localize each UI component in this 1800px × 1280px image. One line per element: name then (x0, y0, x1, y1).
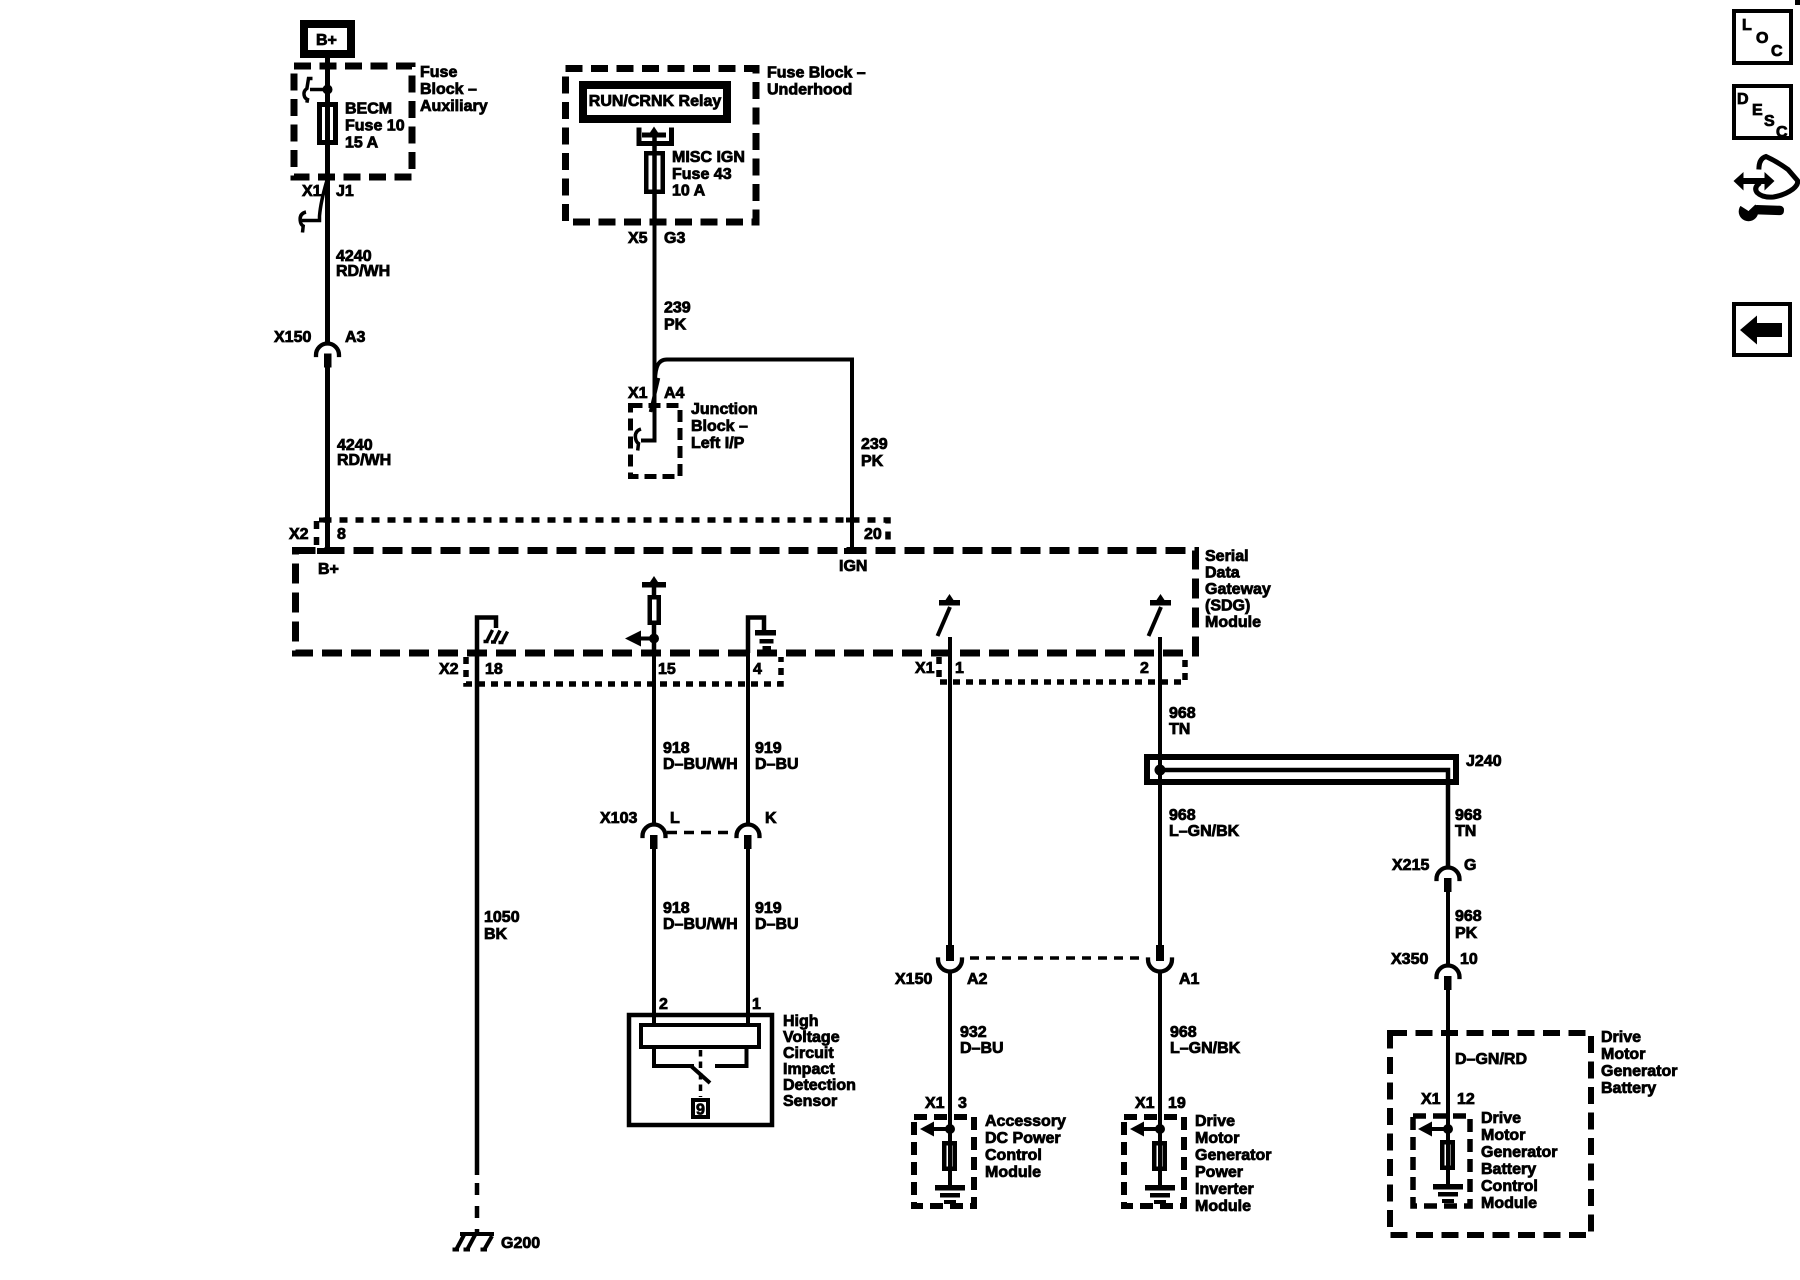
icon DESC box (1734, 86, 1791, 141)
connector X150 pin A1 male stub (1156, 945, 1164, 961)
label High Voltage Circuit Impact Detection Sensor (783, 1013, 856, 1110)
label Fuse Block - Auxiliary (420, 64, 488, 115)
resistor element pin 15 (642, 576, 666, 653)
switch pin 2 internal (1149, 594, 1172, 636)
svg-text:Module: Module (985, 1164, 1041, 1181)
pin 8 T-bar at module border (317, 548, 334, 554)
connector X103 pin K (arc) (737, 825, 760, 836)
icon schematic navigation outline arrow (1756, 157, 1798, 198)
svg-text:Fuse: Fuse (420, 64, 457, 81)
svg-text:S: S (1764, 113, 1775, 130)
svg-text:L: L (670, 810, 680, 827)
wire dashed segment to G200 (475, 1183, 480, 1233)
resistor accessory module (944, 1143, 955, 1169)
connector X103 pin L (arc) (643, 825, 666, 836)
svg-text:D–BU/WH: D–BU/WH (663, 916, 738, 933)
label X1 A4 (628, 385, 685, 402)
ground pin 18 internal chassis ground (477, 618, 508, 654)
label wire 4240 RD/WH lower (337, 437, 391, 469)
svg-text:15: 15 (658, 661, 676, 678)
svg-text:L: L (1742, 17, 1752, 34)
svg-text:Power: Power (1195, 1164, 1243, 1181)
svg-text:Motor: Motor (1601, 1046, 1645, 1063)
fuse F BECM Fuse 10 15A (320, 105, 336, 143)
svg-text:K: K (765, 810, 777, 827)
connector X1 bottom bracket (dotted) (939, 657, 1185, 682)
fuse clip terminal symbol (304, 79, 327, 103)
svg-text:Battery: Battery (1481, 1161, 1536, 1178)
svg-text:4: 4 (753, 661, 762, 678)
svg-text:Motor: Motor (1481, 1127, 1525, 1144)
svg-text:968: 968 (1455, 908, 1482, 925)
node junction dot pin 15 (649, 634, 659, 644)
svg-text:G200: G200 (501, 1235, 540, 1252)
resistor battery control module (1442, 1142, 1453, 1168)
svg-text:X1: X1 (925, 1095, 945, 1112)
icon wrench (1738, 198, 1785, 222)
wire resistor to ground battery control module (1446, 1129, 1450, 1184)
svg-text:8: 8 (337, 526, 346, 543)
svg-text:1: 1 (752, 996, 761, 1013)
wire 968 L-GN/BK X150 to inverter module (1158, 971, 1162, 1129)
label wire 239 PK (664, 300, 691, 334)
svg-text:X2: X2 (289, 526, 309, 543)
wire 239 PK branch to SDG pin 20 (655, 360, 852, 551)
icon back arrow box (1734, 304, 1790, 355)
connector X215 pin G male stub (1444, 878, 1452, 892)
svg-text:Battery: Battery (1601, 1080, 1656, 1097)
svg-text:L–GN/BK: L–GN/BK (1169, 823, 1240, 840)
fuse F MISC IGN Fuse 43 10A (646, 153, 663, 192)
svg-text:Module: Module (1481, 1195, 1537, 1212)
connector X150 pin A3 male stub (324, 354, 332, 368)
svg-text:(SDG): (SDG) (1205, 598, 1250, 615)
svg-text:A2: A2 (967, 971, 988, 988)
ground pin 4 internal earth ground (748, 618, 776, 654)
svg-text:Accessory: Accessory (985, 1113, 1066, 1130)
connector X2 top bracket (dotted) (317, 520, 889, 545)
label wire 239 PK right (861, 436, 888, 470)
label wire 4240 RD/WH upper (336, 248, 390, 280)
svg-text:968: 968 (1455, 807, 1482, 824)
svg-text:Generator: Generator (1601, 1063, 1677, 1080)
wire D-GN/RD X350 into battery box (1446, 990, 1450, 1129)
wire 919 D-BU pin 4 to X103 K (746, 653, 750, 823)
svg-text:2: 2 (1140, 660, 1149, 677)
arrow internal circuit accessory module (920, 1122, 950, 1137)
svg-text:Fuse 43: Fuse 43 (672, 166, 732, 183)
label Accessory DC Power Control Module (985, 1113, 1066, 1181)
svg-text:Fuse Block –: Fuse Block – (767, 65, 866, 82)
label X103 L K (600, 810, 777, 827)
svg-text:J1: J1 (336, 183, 354, 200)
svg-text:968: 968 (1170, 1024, 1197, 1041)
svg-text:PK: PK (1455, 925, 1478, 942)
svg-text:Control: Control (1481, 1178, 1538, 1195)
sensor switch blade (691, 1066, 710, 1083)
svg-text:Generator: Generator (1481, 1144, 1557, 1161)
wire resistor to ground accessory module (948, 1129, 952, 1185)
svg-text:BK: BK (484, 926, 508, 943)
label wire 968 PK (1455, 908, 1482, 942)
drive motor generator battery control module (dashed box) (1413, 1116, 1470, 1206)
icon LOC box (1734, 11, 1791, 63)
svg-text:19: 19 (1168, 1095, 1186, 1112)
svg-text:RUN/CRNK Relay: RUN/CRNK Relay (589, 93, 722, 110)
svg-text:A1: A1 (1179, 971, 1200, 988)
svg-text:1: 1 (955, 660, 964, 677)
connector X150 pin A2 male stub (946, 945, 954, 961)
svg-text:Sensor: Sensor (783, 1093, 837, 1110)
label Fuse Block - Underhood (767, 65, 866, 99)
svg-text:D–BU: D–BU (960, 1040, 1004, 1057)
svg-text:Circuit: Circuit (783, 1045, 834, 1062)
svg-text:Fuse 10: Fuse 10 (345, 118, 405, 135)
svg-text:D–GN/RD: D–GN/RD (1455, 1051, 1527, 1068)
drive motor generator power inverter module (dashed box) (1124, 1117, 1184, 1206)
label X150 A3 (274, 329, 366, 346)
svg-text:918: 918 (663, 740, 690, 757)
wire 239 PK fuse to junction block (653, 222, 657, 440)
resistor inverter module (1154, 1143, 1165, 1169)
connector X103 pin L male stub (650, 835, 658, 849)
svg-text:O: O (1756, 30, 1768, 47)
drive motor generator battery (dashed box) (1390, 1033, 1591, 1235)
wire B+ to fuse BECM (325, 58, 330, 145)
label wire 932 D-BU (960, 1024, 1004, 1057)
label wire 919 D-BU upper (755, 740, 799, 773)
svg-text:B+: B+ (316, 32, 337, 49)
label X1 19 (1135, 1095, 1186, 1112)
svg-text:X150: X150 (274, 329, 311, 346)
connector X150 pin A3 (arc) (316, 344, 339, 356)
svg-text:239: 239 (861, 436, 888, 453)
wire inside junction block (641, 437, 655, 441)
label wire 968 L-GN/BK upper (1169, 807, 1240, 840)
connector X150 pin A2 (arc) (938, 960, 962, 972)
sensor label 9 box (693, 1100, 708, 1119)
icon schematic navigation double arrow (1734, 172, 1775, 191)
svg-text:3: 3 (958, 1095, 967, 1112)
svg-text:Control: Control (985, 1147, 1042, 1164)
svg-text:Drive: Drive (1481, 1110, 1521, 1127)
node junction dot battery control module (1443, 1124, 1453, 1134)
svg-text:Underhood: Underhood (767, 82, 852, 99)
svg-text:Junction: Junction (691, 401, 758, 418)
label wire 918 D-BU/WH lower (663, 900, 738, 933)
svg-text:X5: X5 (628, 230, 648, 247)
connector X350 pin 10 male stub (1444, 976, 1452, 990)
label X2 18 15 4 (439, 661, 762, 678)
svg-text:2: 2 (659, 996, 668, 1013)
label wire 968 TN right (1455, 807, 1482, 840)
svg-text:Drive: Drive (1601, 1029, 1641, 1046)
svg-text:DC Power: DC Power (985, 1130, 1061, 1147)
wire 4240 RD/WH to SDG pin 8 (325, 366, 330, 551)
relay pin nub (650, 127, 658, 133)
svg-text:X215: X215 (1392, 857, 1429, 874)
label BECM Fuse 10 15 A (345, 101, 405, 152)
svg-text:L–GN/BK: L–GN/BK (1170, 1040, 1241, 1057)
pin 20 tick at connector line (846, 518, 858, 523)
splice block J240 (1147, 757, 1456, 782)
ground earth accessory module (935, 1185, 965, 1204)
svg-text:D: D (1737, 91, 1749, 108)
ground earth inverter module (1145, 1185, 1175, 1204)
node junction dot accessory module (945, 1124, 955, 1134)
label X215 G (1392, 857, 1476, 874)
svg-text:X150: X150 (895, 971, 932, 988)
svg-text:918: 918 (663, 900, 690, 917)
connector X215 pin G (arc) (1437, 868, 1460, 880)
connector X1 pin A4 slash (651, 378, 659, 412)
svg-text:Inverter: Inverter (1195, 1181, 1254, 1198)
label X150 A2 A1 (895, 971, 1200, 988)
accessory DC power control module (dashed box) (914, 1117, 974, 1206)
svg-text:D–BU: D–BU (755, 756, 799, 773)
pin 20 T-bar at module border (844, 548, 861, 554)
fuse block - underhood (dashed box) (566, 69, 757, 223)
svg-text:D–BU: D–BU (755, 916, 799, 933)
wire fuse to connector X1 J1 (325, 145, 330, 343)
svg-text:Drive: Drive (1195, 1113, 1235, 1130)
svg-text:G3: G3 (664, 230, 685, 247)
svg-text:10: 10 (1460, 951, 1478, 968)
label MISC IGN Fuse 43 10 A (672, 149, 745, 200)
svg-text:TN: TN (1169, 721, 1190, 738)
arrow internal circuit pin 15 (625, 631, 654, 647)
svg-text:239: 239 (664, 300, 691, 317)
label Serial Data Gateway (SDG) Module (1205, 548, 1271, 631)
label Drive Motor Generator Battery Control Module (1481, 1110, 1557, 1212)
svg-text:X1: X1 (1135, 1095, 1155, 1112)
sensor element inner rect (641, 1025, 759, 1047)
svg-text:E: E (1752, 102, 1763, 119)
relay pin T-bar (642, 133, 666, 138)
svg-text:G: G (1464, 857, 1476, 874)
svg-text:X103: X103 (600, 810, 637, 827)
connector X150 pin A1 (arc) (1148, 960, 1172, 972)
svg-text:18: 18 (485, 661, 503, 678)
svg-text:IGN: IGN (839, 558, 867, 575)
svg-text:Generator: Generator (1195, 1147, 1271, 1164)
label X1 3 (925, 1095, 967, 1112)
svg-text:X2: X2 (439, 661, 459, 678)
connector X103 dashed link (667, 831, 735, 835)
svg-text:Auxiliary: Auxiliary (420, 98, 488, 115)
label wire 968 L-GN/BK lower (1170, 1024, 1241, 1057)
svg-text:A3: A3 (345, 329, 366, 346)
wire 968 TN pin 2 to X150 A1 (1158, 637, 1162, 946)
relay K RUN/CRNK Relay (583, 85, 727, 119)
svg-text:10 A: 10 A (672, 183, 706, 200)
wire 968 TN inside J240 to right branch (1160, 770, 1448, 866)
svg-text:PK: PK (861, 453, 884, 470)
svg-text:12: 12 (1457, 1091, 1475, 1108)
label Drive Motor Generator Power Inverter Module (1195, 1113, 1271, 1215)
svg-text:Voltage: Voltage (783, 1029, 840, 1046)
wire 1050 BK pin 18 to G200 (475, 653, 480, 1175)
wire relay pin to fuse MISC IGN (652, 135, 657, 222)
junction block - left I/P (dashed box) (631, 406, 681, 477)
label wire 968 TN upper (1169, 705, 1196, 738)
connector X150 dashed link (970, 956, 1146, 960)
ground G200 chassis ground (453, 1234, 495, 1250)
svg-text:X1: X1 (915, 660, 935, 677)
svg-text:BECM: BECM (345, 101, 392, 118)
svg-text:15 A: 15 A (345, 135, 379, 152)
connector X103 pin K male stub (744, 835, 752, 849)
svg-text:RD/WH: RD/WH (337, 452, 391, 469)
svg-text:PK: PK (664, 317, 687, 334)
label wire 919 D-BU lower (755, 900, 799, 933)
connector X2 bottom bracket (dotted) (466, 657, 781, 684)
svg-text:1050: 1050 (484, 909, 520, 926)
label Drive Motor Generator Battery (1601, 1029, 1677, 1097)
svg-text:Impact: Impact (783, 1061, 835, 1078)
svg-text:RD/WH: RD/WH (336, 263, 390, 280)
svg-text:X350: X350 (1391, 951, 1428, 968)
svg-text:9: 9 (696, 1102, 705, 1119)
sensor box high voltage circuit impact detection sensor (629, 1015, 772, 1125)
label X1 12 (1421, 1091, 1475, 1108)
sensor contact left (654, 1047, 694, 1066)
node junction dot on B+ wire (323, 85, 333, 95)
wire 918 D-BU/WH X103 to sensor pin 2 (652, 849, 656, 1024)
svg-text:X1: X1 (302, 183, 322, 200)
svg-text:Block –: Block – (420, 81, 477, 98)
svg-text:Gateway: Gateway (1205, 581, 1271, 598)
node junction dot inverter module (1155, 1124, 1165, 1134)
junction block terminal clip (635, 429, 641, 451)
svg-text:Module: Module (1205, 614, 1261, 631)
svg-text:Serial: Serial (1205, 548, 1249, 565)
page corner mark (1795, 0, 1800, 5)
wire 968 PK X215 to X350 (1446, 892, 1450, 965)
svg-text:C: C (1776, 124, 1788, 141)
switch pin 1 internal (938, 594, 961, 636)
serial data gateway SDG module (dashed box) (296, 551, 1196, 654)
svg-text:J240: J240 (1466, 753, 1502, 770)
fuse block - auxiliary (dashed box) (294, 66, 412, 177)
svg-text:MISC IGN: MISC IGN (672, 149, 745, 166)
pin 8 tick at connector line (319, 518, 331, 523)
label wire 918 D-BU/WH upper (663, 740, 738, 773)
svg-text:X1: X1 (628, 385, 648, 402)
wire resistor to ground inverter module (1158, 1129, 1162, 1185)
svg-text:B+: B+ (318, 561, 339, 578)
sensor contact right (715, 1047, 747, 1066)
wire 932 D-BU pin 1 to X150 A2 (948, 637, 952, 946)
svg-text:Detection: Detection (783, 1077, 856, 1094)
svg-text:Motor: Motor (1195, 1130, 1239, 1147)
svg-text:High: High (783, 1013, 819, 1030)
svg-text:919: 919 (755, 900, 782, 917)
wire 932 D-BU X150 to accessory module (948, 971, 952, 1129)
svg-text:Left I/P: Left I/P (691, 435, 745, 452)
label X5 G3 (628, 230, 685, 247)
svg-text:X1: X1 (1421, 1091, 1441, 1108)
label X1 1 2 (915, 660, 1149, 677)
label X350 10 (1391, 951, 1478, 968)
label X1 J1 (302, 183, 354, 200)
svg-text:C: C (1771, 43, 1783, 60)
connector X350 pin 10 (arc) (1437, 966, 1460, 978)
svg-text:Module: Module (1195, 1198, 1251, 1215)
label wire 1050 BK (484, 909, 520, 943)
connector X1 pin J1 (slash and clip) (300, 182, 326, 233)
arrow internal circuit battery control module (1418, 1122, 1448, 1137)
svg-text:932: 932 (960, 1024, 987, 1041)
wire 919 D-BU X103 to sensor pin 1 (746, 849, 750, 1024)
wire 918 D-BU/WH pin 15 to X103 L (652, 653, 656, 823)
svg-text:20: 20 (864, 526, 882, 543)
power symbol B+ (304, 24, 351, 54)
node junction dot J240 (1155, 765, 1166, 776)
relay socket bracket (639, 128, 672, 144)
arrow internal circuit inverter module (1130, 1122, 1160, 1137)
svg-text:919: 919 (755, 740, 782, 757)
svg-text:A4: A4 (664, 385, 685, 402)
svg-text:968: 968 (1169, 807, 1196, 824)
label Junction Block - Left I/P (691, 401, 758, 452)
svg-text:Block –: Block – (691, 418, 748, 435)
svg-text:968: 968 (1169, 705, 1196, 722)
label X2 8 20 (289, 526, 882, 543)
sensor dashed actuator line (699, 1050, 703, 1097)
svg-text:Data: Data (1205, 565, 1240, 582)
svg-text:D–BU/WH: D–BU/WH (663, 756, 738, 773)
svg-text:TN: TN (1455, 823, 1476, 840)
ground earth battery control module (1433, 1184, 1463, 1203)
